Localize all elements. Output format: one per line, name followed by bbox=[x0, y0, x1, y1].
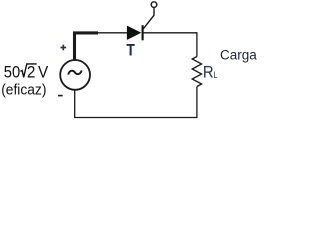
svg-text:2: 2 bbox=[27, 63, 36, 82]
svg-text:L: L bbox=[214, 70, 218, 80]
svg-text:(eficaz): (eficaz) bbox=[1, 82, 46, 99]
svg-text:Carga: Carga bbox=[220, 48, 257, 63]
svg-text:V: V bbox=[38, 63, 48, 82]
svg-text:50: 50 bbox=[4, 64, 21, 82]
svg-text:R: R bbox=[203, 64, 214, 82]
svg-text:T: T bbox=[126, 42, 135, 60]
